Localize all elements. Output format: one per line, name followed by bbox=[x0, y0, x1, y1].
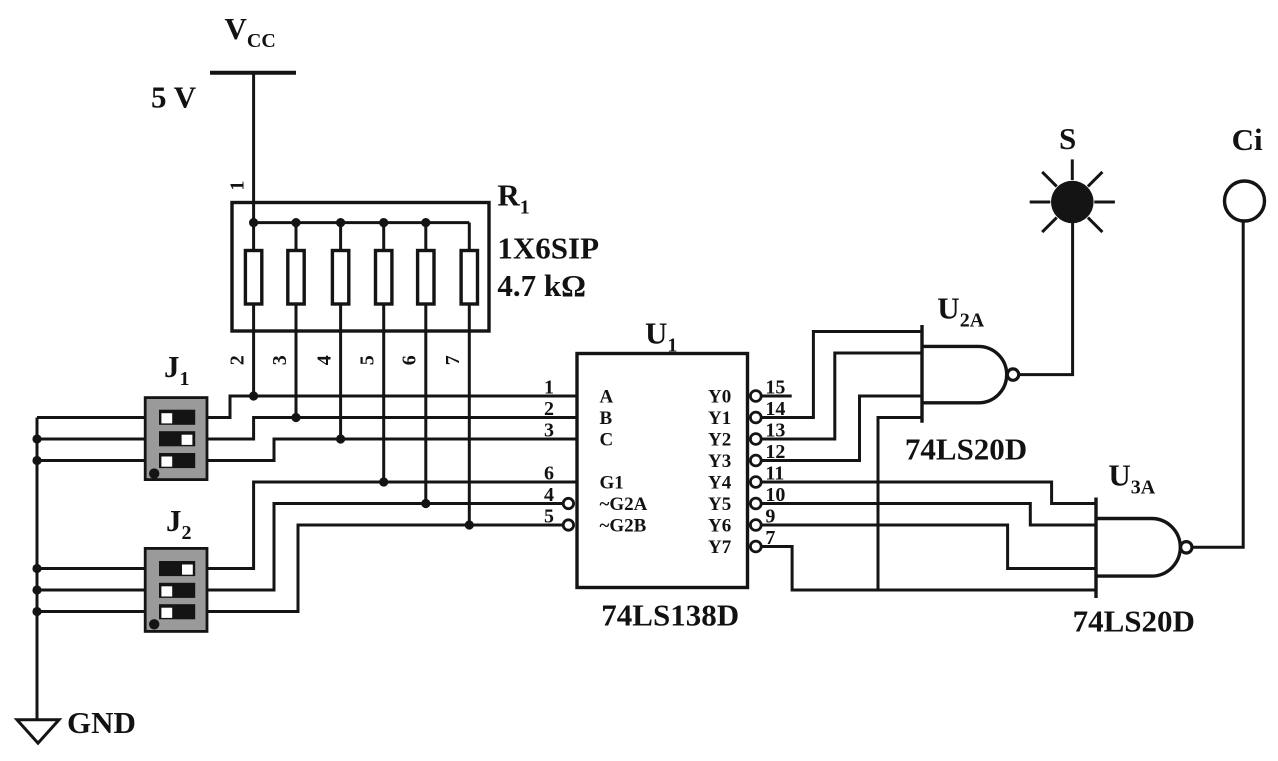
svg-text:1X6SIP: 1X6SIP bbox=[497, 231, 599, 266]
wire Y7 to U3A input4 bbox=[762, 547, 1096, 591]
svg-text:S: S bbox=[1059, 121, 1076, 156]
ground bbox=[17, 720, 59, 743]
svg-text:~G2A: ~G2A bbox=[600, 494, 648, 515]
wire Y6 to U3A input3 bbox=[762, 525, 1096, 569]
svg-text:~G2B: ~G2B bbox=[600, 516, 647, 537]
wire Y2 to U2A input2 bbox=[762, 353, 922, 439]
U1 output bubble pin11 bbox=[750, 477, 761, 488]
R1 element 4 bbox=[376, 223, 392, 482]
svg-text:GND: GND bbox=[67, 705, 136, 740]
lamp S bbox=[1030, 159, 1115, 232]
wire J2 row3 to ground rail bbox=[37, 610, 144, 613]
wire net G2A : U1 pin4 to J2 row2 bbox=[208, 504, 563, 591]
node A junction dot bbox=[249, 391, 258, 400]
wire J1 row3 to ground rail bbox=[37, 459, 144, 462]
svg-text:2: 2 bbox=[227, 355, 249, 365]
wire U3A output to probe Ci bbox=[1193, 221, 1244, 547]
resistor pack R1 box bbox=[232, 203, 489, 332]
svg-text:Y1: Y1 bbox=[708, 408, 731, 429]
svg-text:74LS138D: 74LS138D bbox=[601, 598, 739, 633]
wire Y1 to U2A input1 bbox=[762, 332, 922, 418]
R1 element 5 bbox=[418, 223, 434, 504]
wire Y5 to U3A input2 bbox=[762, 504, 1096, 526]
node B junction dot bbox=[291, 413, 300, 422]
svg-text:7: 7 bbox=[442, 355, 464, 365]
svg-text:74LS20D: 74LS20D bbox=[905, 432, 1027, 467]
U1 output bubble pin12 bbox=[750, 455, 761, 466]
wire net G2B : U1 pin5 to J2 row3 bbox=[208, 525, 563, 612]
svg-text:6: 6 bbox=[399, 355, 421, 365]
wire U2A input4 tap bbox=[878, 418, 922, 591]
svg-text:G1: G1 bbox=[600, 473, 624, 494]
svg-text:4: 4 bbox=[314, 355, 336, 365]
wire ground rail vertical bbox=[36, 418, 39, 720]
wire U2A output to lamp S bbox=[1020, 223, 1073, 375]
R1 element 1 bbox=[245, 223, 261, 396]
node G1 junction dot bbox=[379, 477, 388, 486]
R1 internal bus wire bbox=[254, 221, 470, 224]
wire J1 row1 to ground rail bbox=[37, 416, 144, 419]
wire Y3 to U2A input3 bbox=[762, 396, 922, 461]
switch J2 bbox=[145, 548, 207, 631]
wire net A : U1 pin1 to J1 row1 bbox=[208, 396, 577, 418]
R1 bus junction dots bbox=[249, 218, 430, 227]
NAND gate U3A body bbox=[1096, 498, 1192, 599]
power VCC symbol bbox=[210, 73, 296, 223]
svg-text:Y2: Y2 bbox=[708, 430, 731, 451]
wire J2 row2 to ground rail bbox=[37, 589, 144, 592]
node C junction dot bbox=[336, 434, 345, 443]
svg-text:1: 1 bbox=[227, 181, 249, 191]
U1 output bubble pin14 bbox=[750, 412, 761, 423]
U1 output bubble pin7 bbox=[750, 541, 761, 552]
U1 output bubble pin9 bbox=[750, 520, 761, 531]
ground rail junction dots bbox=[32, 434, 41, 616]
NAND gate U2A body bbox=[922, 325, 1019, 423]
wire J2 row1 to ground rail bbox=[37, 567, 144, 570]
svg-text:5 V: 5 V bbox=[151, 80, 197, 115]
svg-text:Y7: Y7 bbox=[708, 537, 732, 558]
svg-text:Y6: Y6 bbox=[708, 516, 731, 537]
svg-text:3: 3 bbox=[269, 355, 291, 365]
svg-text:C: C bbox=[600, 430, 614, 451]
switch J1 bbox=[145, 398, 207, 480]
svg-text:Y5: Y5 bbox=[708, 494, 731, 515]
wire net C : U1 pin3 to J1 row3 bbox=[208, 439, 577, 461]
R1 element 6 bbox=[461, 223, 477, 525]
node G2B junction dot bbox=[465, 520, 474, 529]
svg-text:A: A bbox=[600, 387, 614, 408]
node G2A junction dot bbox=[421, 499, 430, 508]
U1 output bubble pin13 bbox=[750, 434, 761, 445]
wire net G1 : U1 pin6 to J2 row1 bbox=[208, 482, 577, 569]
probe Ci bbox=[1225, 181, 1265, 221]
svg-text:Ci: Ci bbox=[1232, 122, 1263, 157]
R1 element 2 bbox=[288, 223, 304, 418]
wire Y4 to U3A input1 bbox=[762, 482, 1096, 504]
U1 input bubble pin4 bbox=[563, 498, 573, 508]
svg-text:Y3: Y3 bbox=[708, 451, 731, 472]
wire J1 row2 to ground rail bbox=[37, 438, 144, 441]
IC U1 74LS138D box bbox=[577, 354, 748, 588]
R1 element 3 bbox=[332, 223, 348, 439]
svg-text:Y0: Y0 bbox=[708, 387, 731, 408]
svg-text:74LS20D: 74LS20D bbox=[1073, 604, 1195, 639]
svg-text:5: 5 bbox=[357, 355, 379, 365]
svg-text:Y4: Y4 bbox=[708, 473, 732, 494]
svg-text:B: B bbox=[600, 408, 613, 429]
U1 output bubble pin15 bbox=[750, 391, 761, 402]
wire net B : U1 pin2 to J1 row2 bbox=[208, 418, 577, 440]
svg-text:4.7 kΩ: 4.7 kΩ bbox=[497, 268, 586, 303]
wire Y0 stub bbox=[762, 395, 792, 398]
U1 input bubble pin5 bbox=[563, 520, 573, 530]
U1 output bubble pin10 bbox=[750, 498, 761, 509]
